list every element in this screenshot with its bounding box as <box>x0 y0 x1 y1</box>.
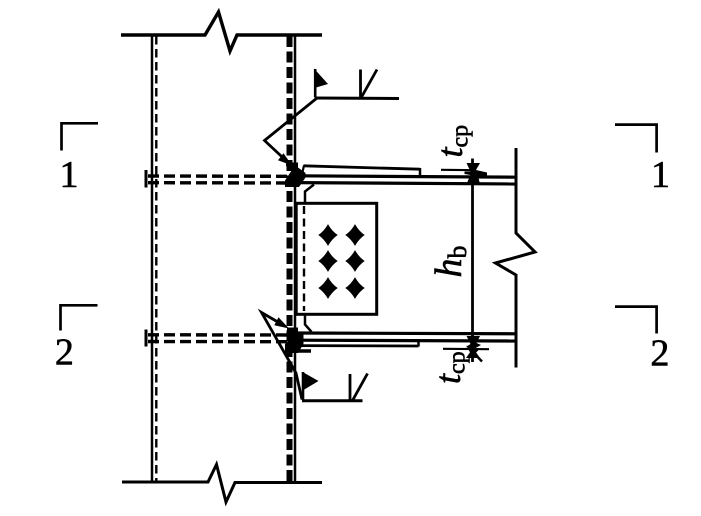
beam bottom flange bottom line <box>296 339 516 343</box>
beam end break line <box>496 148 536 368</box>
top weld leader arrowhead <box>278 153 292 165</box>
svg-text:2: 2 <box>55 332 74 374</box>
svg-text:1: 1 <box>60 154 79 196</box>
bolt B1 <box>318 224 337 246</box>
beam top flange bottom line <box>296 183 516 184</box>
top stiffener left end tick <box>145 170 148 188</box>
column left hidden line <box>155 36 157 481</box>
top weld field flag <box>314 69 328 88</box>
top cover plate right end step <box>419 168 422 176</box>
svg-text:2: 2 <box>650 333 669 375</box>
column bottom break line <box>122 465 322 503</box>
top weld bevel symbol slant <box>361 70 377 99</box>
beam bottom flange top line <box>296 331 516 335</box>
column right flange solid line <box>294 35 297 482</box>
section marker 1 right bracket <box>615 125 657 153</box>
top stiffener hidden line upper <box>148 174 289 178</box>
beam web hidden edge in box <box>303 206 305 311</box>
t_cp top dimension arrows <box>465 163 488 184</box>
bottom weld access cope <box>305 315 312 332</box>
bottom weld bevel symbol vertical <box>349 374 352 401</box>
bottom joint weld blob <box>285 328 304 354</box>
bolt B6 <box>345 277 364 299</box>
top weld leader <box>265 98 318 162</box>
bottom stiffener left end tick <box>145 330 148 347</box>
bottom weld bevel symbol slant <box>353 374 368 401</box>
top cover plate left end <box>303 166 305 173</box>
bottom weld field flag <box>304 373 319 391</box>
bottom t_cp extension line <box>443 348 489 351</box>
top weld bevel symbol vertical <box>359 70 362 99</box>
section marker 1 left bracket <box>62 123 99 150</box>
svg-text:1: 1 <box>651 154 670 196</box>
top stiffener hidden line lower <box>148 181 289 185</box>
bottom weld strip under plate at column <box>290 349 311 353</box>
bottom stiffener hidden line upper <box>148 333 289 337</box>
top weld access cope <box>305 185 314 204</box>
bottom weld leader <box>262 313 303 400</box>
beam top flange top line <box>296 176 516 177</box>
column right flange thick hidden line <box>287 36 293 481</box>
bottom cover plate bottom edge <box>296 344 419 347</box>
top weld flag staff <box>314 69 317 98</box>
top joint left fillet <box>284 172 293 185</box>
bolt B3 <box>318 250 337 272</box>
column left flange line <box>151 35 154 482</box>
bolt B2 <box>345 224 364 246</box>
bolt B4 <box>345 250 364 272</box>
bolt B5 <box>318 277 337 299</box>
shear plate box <box>296 203 377 314</box>
section marker 2 left bracket <box>61 305 98 330</box>
dimension line h_b <box>471 159 474 363</box>
bottom cover plate right end step <box>417 341 420 347</box>
bottom t_cp arrowhead diagonal <box>467 346 479 357</box>
bottom joint left fillet <box>284 340 293 353</box>
top cover plate top edge <box>304 166 421 169</box>
section marker 2 right bracket <box>615 307 657 334</box>
bottom stiffener hidden line lower <box>148 340 289 344</box>
bottom weld leader arrowhead <box>274 317 289 328</box>
column top break line <box>121 12 322 51</box>
bottom t_cp arrow tail <box>469 348 482 362</box>
t_cp bottom dimension arrows <box>466 336 481 350</box>
top joint weld blob <box>285 163 306 188</box>
top t_cp extension line <box>441 169 476 172</box>
top weld reference line <box>315 97 399 101</box>
bottom weld flag staff <box>302 372 305 400</box>
bottom weld reference line <box>302 399 363 402</box>
